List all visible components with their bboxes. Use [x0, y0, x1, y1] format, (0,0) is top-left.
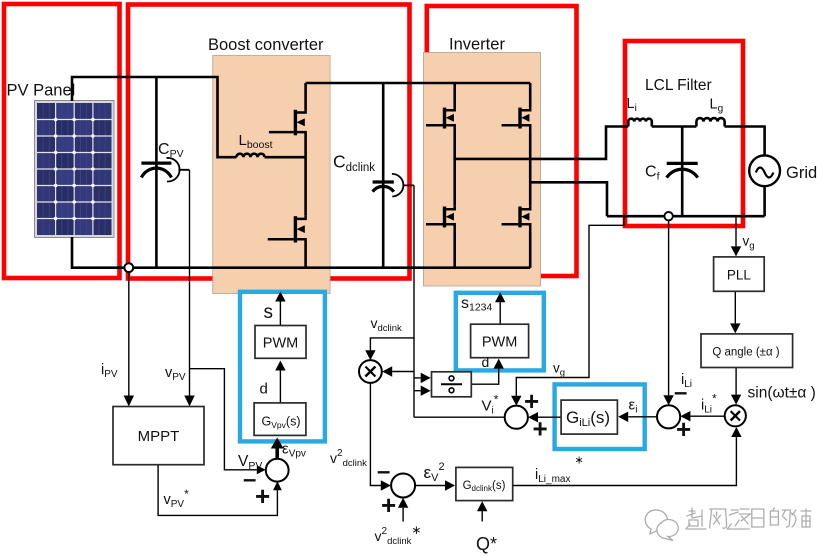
wire vpv* reference [158, 465, 277, 516]
summer Vpv error [266, 459, 289, 482]
wire s gate drive [279, 303, 281, 326]
transistor Q2 boost bottom [268, 215, 306, 242]
wire inverter phase A to Li [455, 127, 629, 159]
svg-text:sin(ωt±α ): sin(ωt±α ) [748, 385, 816, 402]
wire boost inductor to switch node [265, 156, 306, 159]
wire Gvpv to PWM d [279, 370, 281, 403]
svg-text:LCL Filter: LCL Filter [645, 77, 712, 94]
transistor Q1 boost top [269, 109, 306, 135]
wire multiplier to dclink summer [370, 383, 381, 486]
svg-text:s: s [264, 302, 274, 323]
block PLL [714, 257, 765, 291]
wire Q* input [481, 511, 483, 521]
transistor T3 inverter [426, 206, 455, 233]
summer Vi feedforward [505, 406, 528, 429]
wire divider numerator input [414, 377, 420, 379]
LCL filter red frame [625, 41, 743, 226]
capacitor Cpv [141, 163, 171, 177]
wire inverter phase B to filter return [530, 182, 607, 216]
blue box inverter modulator [456, 293, 544, 371]
wire PV negative to node [72, 237, 124, 268]
wire inverter right leg [529, 83, 532, 268]
wire dclink error to Gdclink [415, 485, 445, 487]
wire LCL bottom rail [607, 186, 765, 216]
block MPPT [113, 407, 204, 465]
multiplier iLi reference [725, 405, 746, 426]
wire Li to Lg [652, 125, 697, 128]
blue box voltage loop [240, 292, 325, 442]
svg-text:+: + [255, 481, 270, 511]
svg-text:PV Panel: PV Panel [7, 82, 76, 100]
svg-text:d: d [260, 381, 268, 398]
wire S1234 gate drive [499, 300, 501, 324]
inductor Lg [696, 118, 724, 126]
Cdclink sense arc [392, 174, 414, 197]
block PWM inverter [471, 324, 529, 358]
wire v2dclink reference input [402, 508, 404, 522]
wire Lg to grid [725, 127, 765, 156]
wire Q angle to multiplier [735, 368, 737, 394]
svg-text:–: – [377, 458, 390, 485]
Boost converter orange region [213, 56, 330, 294]
wire top dc bus [306, 82, 531, 85]
svg-text:Q angle (±α ): Q angle (±α ) [712, 347, 779, 359]
svg-text:MPPT: MPPT [138, 428, 180, 445]
wire vpv branch to summer [190, 369, 251, 470]
grid AC source [749, 155, 780, 186]
wire inverter left leg [453, 83, 456, 268]
wire bottom dc rail [134, 266, 531, 269]
block divider [432, 372, 472, 397]
svg-text:+: + [533, 414, 548, 444]
Boost stage red frame [128, 5, 410, 279]
summer iLi error [657, 405, 680, 428]
capacitor Cf [667, 163, 698, 177]
wire multiplier to iLi summer [690, 415, 724, 417]
wire iLi sense [668, 221, 670, 396]
wire vg to PLL [735, 216, 737, 245]
transistor T4 inverter [502, 206, 531, 233]
summer vdclink error [391, 474, 415, 498]
wire vpv sense [189, 170, 191, 395]
wire Cf branch [681, 127, 684, 217]
Inverter orange region [423, 53, 540, 287]
svg-text:–: – [674, 379, 687, 406]
svg-text:d: d [482, 354, 490, 370]
transistor T2 inverter [502, 107, 531, 134]
watermark characters [686, 508, 811, 529]
multiplier vdclink squared [359, 360, 382, 383]
transistor T1 inverter [426, 107, 455, 134]
wire boost switch leg [304, 83, 307, 268]
svg-text:Grid: Grid [786, 164, 817, 182]
Inverter stage red frame [427, 6, 577, 276]
node PV negative junction [124, 263, 133, 272]
watermark logo [645, 510, 678, 540]
svg-text:+: + [676, 414, 691, 444]
block Q angle [701, 334, 793, 368]
svg-text:+: + [524, 386, 539, 416]
inductor Li [628, 119, 652, 127]
PV Panel red frame [4, 4, 120, 278]
block GiLi [561, 400, 617, 434]
svg-text:PWM: PWM [263, 336, 298, 352]
blue box current controller [555, 384, 645, 449]
block PWM boost [255, 326, 306, 359]
wire Cdclink branch [382, 83, 385, 268]
wire vdclink to multiplier right [392, 371, 414, 373]
svg-text:∗: ∗ [575, 455, 584, 467]
svg-text:Inverter: Inverter [449, 36, 505, 54]
svg-text:Boost converter: Boost converter [208, 36, 324, 54]
inductor Lboost [236, 154, 264, 158]
wire divider output d [471, 372, 498, 384]
wire vdclink sense [413, 185, 415, 417]
node Cf return junction [664, 212, 672, 220]
wire iLi summer to GiLi [628, 416, 657, 418]
block Gvpv [254, 403, 306, 436]
svg-text:PWM: PWM [482, 335, 517, 351]
block Gdclink [456, 467, 513, 500]
wire Vi* to divider input [414, 391, 505, 418]
capacitor Cdclink [373, 182, 394, 192]
wire vdclink to multiplier top [370, 338, 414, 347]
PV panel module [35, 101, 115, 238]
wire epsilon Vpv to Gvpv [275, 449, 279, 460]
svg-text:PLL: PLL [727, 268, 752, 283]
wire PLL to Q angle [734, 292, 736, 323]
wire iLi_max to multiplier [513, 432, 737, 486]
wire PV positive to boost input [72, 77, 236, 157]
Cpv sense arc [167, 158, 190, 182]
wire vg sense to Vi summer [516, 216, 624, 395]
svg-text:+: + [381, 490, 396, 520]
wire Cpv branch [155, 77, 158, 268]
svg-text:Q*: Q* [476, 534, 497, 554]
wire ipv sense [128, 272, 130, 395]
divider symbol [441, 376, 462, 393]
wire GiLi to Vi summer [538, 416, 561, 418]
